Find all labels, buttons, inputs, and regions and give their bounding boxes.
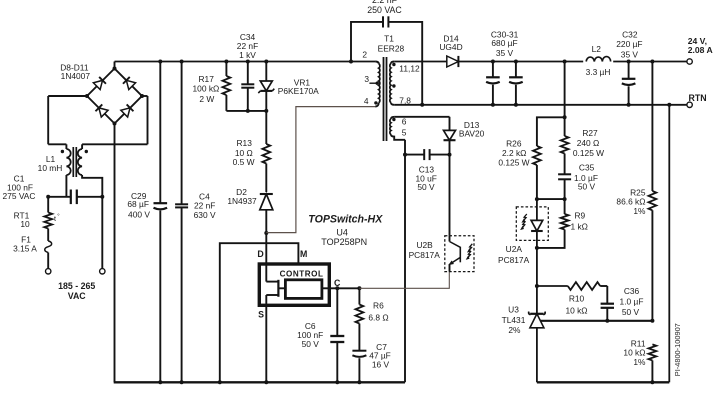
wire C pin xyxy=(322,287,337,289)
wire bias winding top xyxy=(394,116,449,118)
svg-text:2.08 A: 2.08 A xyxy=(688,45,713,55)
inductor L1 left winding xyxy=(48,96,71,197)
resistor R26 xyxy=(498,138,540,199)
svg-text:2 W: 2 W xyxy=(199,94,214,104)
svg-text:TOP258PN: TOP258PN xyxy=(321,237,367,247)
svg-text:50 V: 50 V xyxy=(302,339,320,349)
svg-text:D: D xyxy=(257,249,263,259)
U4 pin label D xyxy=(257,249,263,259)
svg-text:3.15 A: 3.15 A xyxy=(13,243,37,253)
diode D8 (bridge top-left) xyxy=(93,77,106,90)
L1 phase dots xyxy=(61,150,88,153)
transistor U2B PC817A xyxy=(445,236,474,272)
capacitor C13 xyxy=(405,149,450,192)
svg-text:10 mH: 10 mH xyxy=(38,163,63,173)
svg-text:S: S xyxy=(258,309,264,319)
svg-text:BAV20: BAV20 xyxy=(459,128,485,138)
C34 junctions xyxy=(246,60,250,113)
wire input L to fuse xyxy=(47,253,49,269)
transformer T1 secondary winding xyxy=(390,62,394,105)
T1 pin 2 label xyxy=(362,50,367,60)
svg-text:2: 2 xyxy=(362,50,367,60)
capacitor C36 xyxy=(601,286,644,321)
svg-text:CONTROL: CONTROL xyxy=(280,269,324,278)
wire secondary ground rail xyxy=(537,381,669,383)
wire node B to terminal N xyxy=(101,197,103,269)
inductor L2 xyxy=(583,44,613,77)
svg-text:U3: U3 xyxy=(508,305,519,315)
T1 pin 6 label xyxy=(402,116,407,126)
svg-text:680 µF: 680 µF xyxy=(491,38,517,48)
LED cathode junction xyxy=(535,246,539,250)
C29 junctions xyxy=(158,60,162,385)
svg-text:275 VAC: 275 VAC xyxy=(3,191,36,201)
resistor R13 xyxy=(233,111,271,192)
label TOP258PN xyxy=(321,237,367,247)
svg-text:PI-4800-100907: PI-4800-100907 xyxy=(673,323,682,376)
capacitor C32 xyxy=(616,30,642,105)
feedback top junction xyxy=(563,60,567,64)
diode D10 (bridge bottom-left) xyxy=(95,104,108,117)
op-amp U4 TOPSwitch body xyxy=(259,264,329,305)
label 185-265 VAC xyxy=(58,281,95,301)
svg-text:4: 4 xyxy=(364,96,369,106)
svg-text:250 VAC: 250 VAC xyxy=(367,5,402,15)
svg-text:68 µF: 68 µF xyxy=(127,199,149,209)
resistor R27 xyxy=(561,117,604,174)
resistor R17 xyxy=(193,62,231,111)
C6 bottom junction xyxy=(335,380,339,384)
svg-text:1 kV: 1 kV xyxy=(239,50,256,60)
svg-text:240 Ω: 240 Ω xyxy=(577,138,600,148)
label U2A xyxy=(506,244,523,254)
diode D9 (bridge top-right) xyxy=(123,77,136,90)
svg-text:3.3 µH: 3.3 µH xyxy=(586,67,611,77)
svg-text:C35: C35 xyxy=(579,163,595,173)
label U2B PC817A xyxy=(409,250,441,260)
svg-text:R27: R27 xyxy=(582,128,598,138)
svg-text:R6: R6 xyxy=(373,300,384,310)
svg-text:1.0 µF: 1.0 µF xyxy=(620,297,644,307)
VR1 junctions xyxy=(264,60,268,113)
capacitor C35 xyxy=(558,163,598,200)
feedback branch junction xyxy=(563,115,567,119)
svg-text:T1: T1 xyxy=(384,33,394,43)
C4 junctions xyxy=(180,60,184,385)
diode D14 xyxy=(439,33,462,67)
svg-text:0.125 W: 0.125 W xyxy=(573,148,604,158)
zener VR1 xyxy=(258,62,319,111)
wire RTN rail xyxy=(394,104,687,106)
wire primary pin4 to drain node xyxy=(266,107,375,233)
resistor R9 xyxy=(537,199,588,248)
wire S pin to ground xyxy=(265,305,267,382)
svg-text:U4: U4 xyxy=(336,227,348,237)
wire D13 to opto collector xyxy=(449,155,451,236)
svg-text:VAC: VAC xyxy=(68,291,87,301)
T1 pins 7,8 label xyxy=(399,95,411,105)
svg-text:R10: R10 xyxy=(569,294,585,304)
T1 pin 4 label xyxy=(364,96,369,106)
wire RTN drop xyxy=(668,105,670,383)
svg-text:1 kΩ: 1 kΩ xyxy=(571,221,588,231)
svg-text:7,8: 7,8 xyxy=(399,95,411,105)
svg-text:EER28: EER28 xyxy=(378,44,405,54)
junction node B xyxy=(100,195,104,199)
U4 pin label M xyxy=(300,249,307,259)
bridge rectifier D8-D11 frame xyxy=(87,69,142,124)
input terminal L (line) xyxy=(46,269,51,274)
wire clamp bottom xyxy=(226,110,266,112)
wire M pin to source return xyxy=(220,243,299,382)
wire bridge AC left xyxy=(48,95,87,97)
transformer T1 core xyxy=(384,57,387,141)
wire TL431 ref line xyxy=(541,320,653,322)
svg-text:U2B: U2B xyxy=(416,240,433,250)
resistor R6 xyxy=(356,288,389,350)
svg-text:L2: L2 xyxy=(592,44,602,54)
svg-text:P6KE170A: P6KE170A xyxy=(278,86,319,96)
svg-text:1%: 1% xyxy=(633,357,646,367)
svg-text:50 V: 50 V xyxy=(622,307,640,317)
svg-text:R9: R9 xyxy=(575,211,586,221)
T1 bias phase dot xyxy=(392,118,395,121)
capacitor C34 xyxy=(237,32,258,111)
svg-text:C36: C36 xyxy=(624,286,640,296)
wire bridge AC right xyxy=(142,95,148,97)
svg-text:1%: 1% xyxy=(633,206,646,216)
label TOPSwitch-HX xyxy=(308,213,383,225)
wire secondary top xyxy=(394,61,447,63)
svg-text:UG4D: UG4D xyxy=(439,42,462,52)
svg-text:35 V: 35 V xyxy=(496,48,514,58)
svg-text:6.8 Ω: 6.8 Ω xyxy=(368,312,388,322)
resistor R11 xyxy=(623,338,656,382)
svg-text:10: 10 xyxy=(20,219,30,229)
svg-text:TL431: TL431 xyxy=(502,315,526,325)
wire branch to R26 xyxy=(537,117,565,146)
wire output rail xyxy=(458,61,687,63)
fuse F1 xyxy=(13,235,52,254)
svg-text:1N4937: 1N4937 xyxy=(227,196,257,206)
svg-text:5: 5 xyxy=(402,128,407,138)
C30 C31 junctions xyxy=(491,60,518,107)
C13 junctions xyxy=(403,153,452,157)
capacitor C29 xyxy=(127,62,167,383)
wire fuse to RT1 xyxy=(47,229,49,241)
svg-text:22 nF: 22 nF xyxy=(194,200,215,210)
U4 CONTROL text xyxy=(280,269,324,278)
inductor L1 right winding xyxy=(78,96,148,197)
resistor R10 xyxy=(537,282,607,315)
R11 bottom junction xyxy=(650,380,654,384)
svg-text:0.125 W: 0.125 W xyxy=(498,157,529,167)
svg-text:PC817A: PC817A xyxy=(409,250,441,260)
T1 pin 5 label xyxy=(402,128,407,138)
svg-text:220 µF: 220 µF xyxy=(616,39,642,49)
svg-text:R17: R17 xyxy=(199,74,215,84)
C36 bottom junction xyxy=(605,319,609,323)
svg-text:RTN: RTN xyxy=(689,93,707,103)
svg-text:185 - 265: 185 - 265 xyxy=(58,281,95,291)
svg-text:16 V: 16 V xyxy=(372,359,390,369)
T1 primary phase dot xyxy=(374,101,377,104)
transformer T1 bias winding xyxy=(390,117,405,140)
node drain junction xyxy=(264,231,268,235)
U4 pin label C xyxy=(334,278,341,288)
junction node A xyxy=(46,195,50,199)
inductor L1 core xyxy=(73,147,76,177)
C32 junctions xyxy=(627,60,631,107)
capacitor Y 2.2nF 250VAC xyxy=(351,0,422,105)
svg-text:R13: R13 xyxy=(237,138,253,148)
label 24V 2.08A xyxy=(688,36,713,55)
wire C to R6 xyxy=(337,287,359,289)
capacitor C7 xyxy=(352,342,390,383)
R25 top junction xyxy=(650,60,654,64)
svg-text:TOPSwitch-HX: TOPSwitch-HX xyxy=(308,213,383,225)
capacitor C30 xyxy=(486,62,500,105)
wire DC+ top rail xyxy=(115,61,376,63)
label T1 EER28 xyxy=(378,33,405,53)
svg-text:U2A: U2A xyxy=(506,244,523,254)
T1 pin 3 tap xyxy=(364,74,379,85)
label U2A PC817A xyxy=(498,255,530,265)
M return junction xyxy=(218,380,222,384)
TL431 cathode junction xyxy=(535,284,539,288)
diode D13 xyxy=(444,117,485,155)
C7 bottom junction xyxy=(357,380,361,384)
ref line junction xyxy=(650,319,654,323)
U4 pin label S xyxy=(258,309,264,319)
svg-text:630 V: 630 V xyxy=(194,210,216,220)
svg-text:C: C xyxy=(334,278,341,288)
label D8-D11 1N4007 xyxy=(60,62,90,81)
R17 top junction xyxy=(224,60,228,64)
U4 inner control box xyxy=(285,280,322,299)
capacitor C4 xyxy=(175,62,216,383)
Y-cap junctions xyxy=(349,60,424,107)
wire bias return xyxy=(404,140,406,382)
RTN drop junction xyxy=(667,103,671,107)
capacitor C1 xyxy=(3,174,103,205)
C35 bottom junction xyxy=(563,197,567,201)
svg-text:10 kΩ: 10 kΩ xyxy=(565,305,587,315)
wire feedback drop xyxy=(564,62,566,118)
output terminal +24V xyxy=(687,59,692,64)
C pin junction xyxy=(335,286,339,290)
svg-text:0.5 W: 0.5 W xyxy=(233,157,255,167)
input terminal N (neutral) xyxy=(100,269,105,274)
label L1 xyxy=(38,154,63,173)
svg-text:50 V: 50 V xyxy=(417,182,435,192)
thermistor RT1 xyxy=(14,210,61,229)
diode D2 xyxy=(227,187,272,233)
capacitor C31 xyxy=(491,29,523,104)
svg-text:100 kΩ: 100 kΩ xyxy=(193,84,220,94)
diode U2A PC817A LED xyxy=(516,199,548,248)
svg-text:1N4007: 1N4007 xyxy=(61,71,91,81)
wire C pin to opto emitter xyxy=(359,272,449,289)
diode D11 (bridge bottom-right) xyxy=(121,104,134,117)
svg-text:R26: R26 xyxy=(506,138,522,148)
svg-text:50 V: 50 V xyxy=(578,181,596,191)
svg-text:M: M xyxy=(300,249,307,259)
transformer T1 primary winding xyxy=(375,62,380,107)
svg-text:PC817A: PC817A xyxy=(498,255,530,265)
wire primary ground rail xyxy=(114,381,405,383)
capacitor C6 xyxy=(297,288,344,382)
svg-text:6: 6 xyxy=(402,116,407,126)
svg-text:t: t xyxy=(54,214,56,223)
svg-text:2%: 2% xyxy=(508,325,521,335)
wire bridge bottom to ground rail xyxy=(114,124,116,383)
label RTN xyxy=(689,93,707,103)
T1 secondary phase dots xyxy=(392,63,395,88)
svg-text:35 V: 35 V xyxy=(621,49,639,59)
wire LED cathode to TL431 xyxy=(536,248,538,286)
op-amp U3 TL431 xyxy=(502,286,546,382)
R6 top junction xyxy=(357,286,361,290)
label U4 xyxy=(336,227,348,237)
wire D pin xyxy=(265,233,267,263)
S pin junction xyxy=(264,380,268,384)
wire bridge top to rail xyxy=(114,62,116,69)
svg-text:3: 3 xyxy=(364,74,369,84)
label PI-4800-100907 xyxy=(673,323,682,376)
T1 pins 11,12 label xyxy=(399,64,420,74)
svg-text:400 V: 400 V xyxy=(128,209,150,219)
transistor U4 MOSFET xyxy=(266,264,285,306)
bridge corner junctions xyxy=(85,67,144,126)
label U2B xyxy=(416,240,433,250)
svg-text:11,12: 11,12 xyxy=(399,64,420,74)
LED anode junction xyxy=(535,197,539,201)
output terminal RTN xyxy=(687,102,692,107)
wire RT1 to node A xyxy=(47,197,49,213)
resistor R25 xyxy=(616,62,656,321)
wire C35 to LED anode xyxy=(537,198,565,200)
